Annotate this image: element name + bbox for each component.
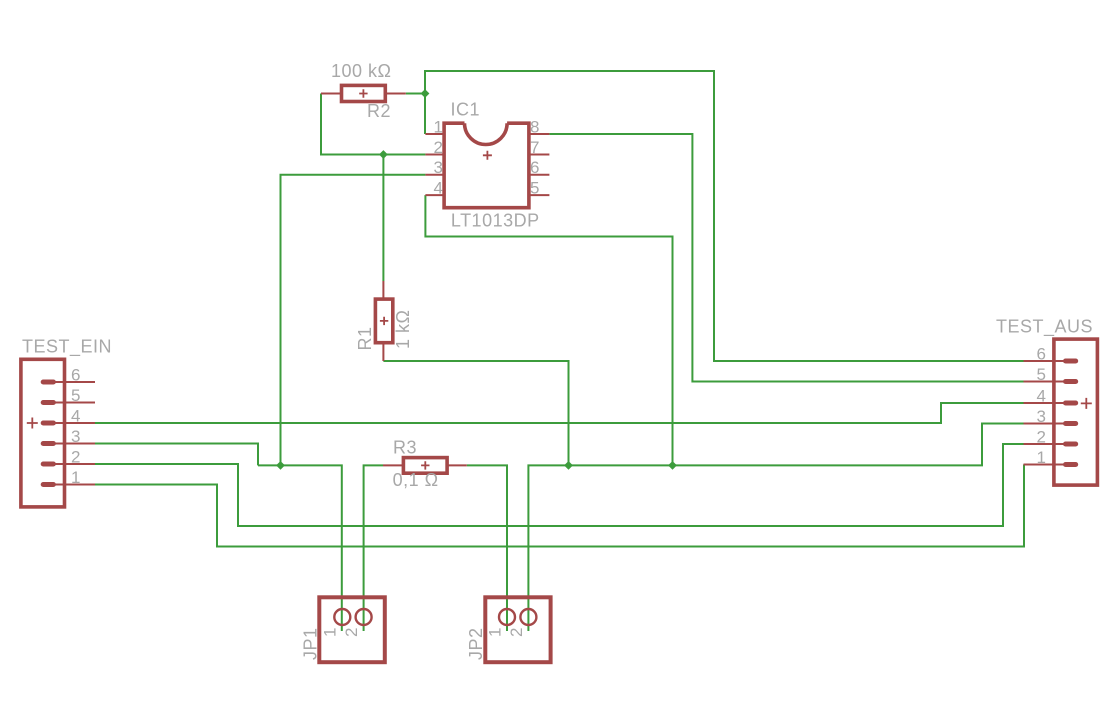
IC1 pin 8 <box>529 133 550 135</box>
jumper JP2 body <box>485 597 550 662</box>
svg-text:2: 2 <box>71 448 81 467</box>
wire TEST_EIN pin 3 step down to junction row <box>95 444 258 466</box>
svg-text:6: 6 <box>1037 345 1047 364</box>
svg-text:8: 8 <box>530 118 540 137</box>
IC1 pin 2 <box>425 154 444 156</box>
wire R3 left lead to JP1 pin 2 <box>364 465 383 631</box>
svg-text:5: 5 <box>1037 365 1047 384</box>
junction at R2 right / IC1 pin1 node <box>421 89 430 98</box>
svg-text:3: 3 <box>1037 407 1047 426</box>
svg-text:R2: R2 <box>367 101 391 121</box>
svg-text:R1: R1 <box>355 326 375 350</box>
connector TEST_EIN body <box>21 359 65 507</box>
connector TEST_AUS pins 1-6 <box>1024 360 1071 362</box>
svg-text:100 kΩ: 100 kΩ <box>331 61 392 81</box>
resistor R2 body <box>342 85 386 101</box>
svg-text:2: 2 <box>507 627 526 637</box>
wire net N$1 top loop (R2 right / IC1 pin1 to TEST_AUS pin6) <box>425 71 1024 361</box>
wire junction to IC1 pin 2 <box>383 154 425 156</box>
wire junction down to R1 top <box>382 155 384 282</box>
svg-text:JP1: JP1 <box>301 627 321 660</box>
svg-text:R3: R3 <box>393 438 417 458</box>
svg-text:TEST_AUS: TEST_AUS <box>996 317 1093 338</box>
junction row right (IC1 pin4) <box>668 461 677 470</box>
wire R3 right lead to JP2 pin 1 <box>467 465 507 631</box>
jumper JP2 pin 1 <box>499 609 515 625</box>
svg-text:2: 2 <box>1037 428 1047 447</box>
wire junction row right segment to TEST_AUS pin 3 <box>569 424 1024 466</box>
wire TEST_EIN pin 2 to TEST_AUS pin 2 <box>95 444 1024 526</box>
svg-text:1: 1 <box>1037 448 1047 467</box>
wire R2 left lead loop down to inverting input row <box>321 94 383 155</box>
wire IC1 pin 3 net (to junction row / TEST_EIN pin 3) <box>281 175 426 466</box>
svg-text:LT1013DP: LT1013DP <box>451 211 540 231</box>
IC1 pin 6 <box>529 174 550 176</box>
IC1 pin 1 <box>425 133 444 135</box>
svg-text:2: 2 <box>342 627 361 637</box>
svg-text:3: 3 <box>71 427 81 446</box>
wire IC1 pin 4 net down to junction row <box>425 195 672 465</box>
IC1 pin 3 <box>425 174 444 176</box>
resistor R1 leads <box>382 281 384 361</box>
svg-text:TEST_EIN: TEST_EIN <box>22 336 112 357</box>
svg-text:5: 5 <box>530 179 540 198</box>
wire TEST_EIN pin 1 to TEST_AUS pin 1 <box>95 465 1024 547</box>
svg-text:4: 4 <box>71 407 81 426</box>
svg-text:3: 3 <box>434 158 444 177</box>
jumper JP2 pin 2 <box>520 609 536 625</box>
svg-text:1: 1 <box>485 627 504 637</box>
svg-text:1 kΩ: 1 kΩ <box>393 310 413 349</box>
resistor R3 body <box>403 458 447 474</box>
IC1 pin 7 <box>529 154 550 156</box>
svg-text:6: 6 <box>530 158 540 177</box>
jumper JP1 pin 2 <box>356 609 372 625</box>
junction at inverting input node <box>379 150 388 159</box>
svg-text:4: 4 <box>1037 387 1047 406</box>
wire IC1 pin 8 to TEST_AUS pin 5 <box>549 134 1023 382</box>
svg-text:4: 4 <box>434 179 444 198</box>
connector TEST_EIN pins 1-6 <box>48 381 95 383</box>
svg-text:1: 1 <box>71 468 81 487</box>
jumper JP1 pin 1 <box>334 609 350 625</box>
svg-text:1: 1 <box>321 627 340 637</box>
svg-text:0,1 Ω: 0,1 Ω <box>393 470 439 490</box>
IC1 pin 5 <box>529 194 550 196</box>
resistor R1 body <box>375 299 392 343</box>
wire net N$1 drop from junction to IC1 pin 1 <box>424 94 426 135</box>
connector TEST_AUS body <box>1054 339 1098 485</box>
op-amp IC1 body <box>444 123 529 208</box>
junction row left (TEST_EIN pin3 / IC1 pin3 / JP1) <box>276 461 285 470</box>
resistor R2 leads <box>321 93 406 95</box>
svg-text:6: 6 <box>71 366 81 385</box>
svg-text:1: 1 <box>434 118 444 137</box>
wire junction row left segment into JP1 pin 1 <box>258 465 342 631</box>
IC1 pin 4 <box>425 194 444 196</box>
svg-text:7: 7 <box>530 138 540 157</box>
wire R1 bottom to sense junction <box>383 361 568 465</box>
svg-text:JP2: JP2 <box>466 627 486 660</box>
resistor R3 leads <box>383 464 467 466</box>
svg-text:2: 2 <box>434 138 444 157</box>
svg-text:5: 5 <box>71 386 81 405</box>
svg-text:IC1: IC1 <box>451 100 481 120</box>
wire JP2 pin 2 up to junction row <box>528 465 568 631</box>
junction row middle (R1 bottom sense) <box>564 461 573 470</box>
wire R2 right lead to junction <box>406 93 425 95</box>
wire TEST_EIN pin 4 to TEST_AUS pin 4 <box>95 403 1024 423</box>
jumper JP1 body <box>319 597 385 662</box>
